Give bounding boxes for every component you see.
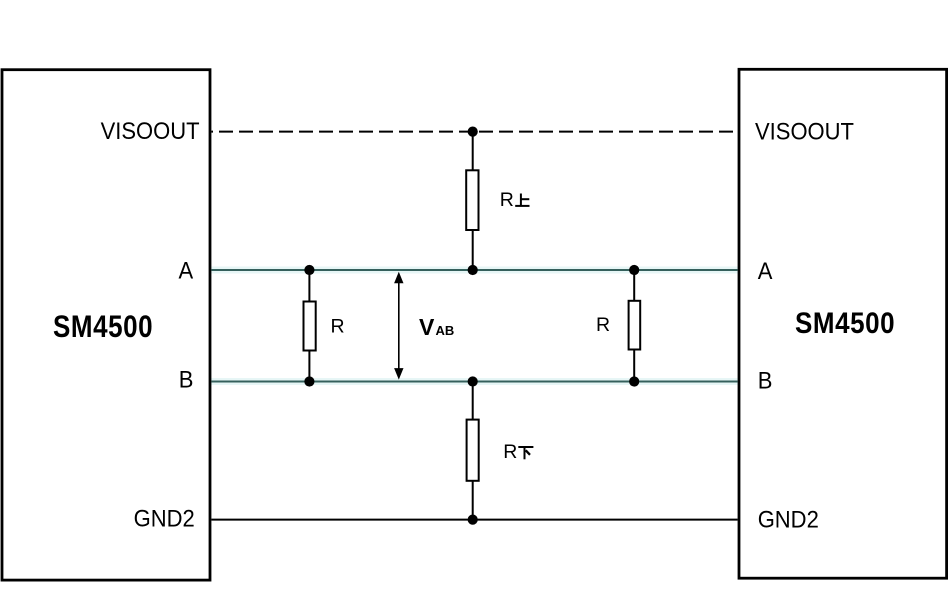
svg-text:A: A bbox=[758, 257, 773, 284]
svg-text:VISOOUT: VISOOUT bbox=[755, 118, 854, 145]
svg-text:AB: AB bbox=[436, 323, 455, 338]
svg-text:R: R bbox=[500, 189, 514, 211]
svg-text:GND2: GND2 bbox=[758, 505, 819, 532]
svg-text:R: R bbox=[596, 314, 610, 336]
svg-text:SM4500: SM4500 bbox=[53, 310, 153, 345]
svg-text:A: A bbox=[179, 257, 194, 284]
svg-text:B: B bbox=[758, 367, 773, 394]
svg-text:R: R bbox=[503, 441, 517, 463]
svg-text:B: B bbox=[179, 365, 194, 392]
svg-text:VISOOUT: VISOOUT bbox=[101, 117, 200, 144]
svg-text:R: R bbox=[331, 315, 345, 337]
svg-text:V: V bbox=[419, 314, 435, 340]
svg-text:GND2: GND2 bbox=[134, 504, 195, 531]
svg-text:SM4500: SM4500 bbox=[795, 306, 895, 339]
